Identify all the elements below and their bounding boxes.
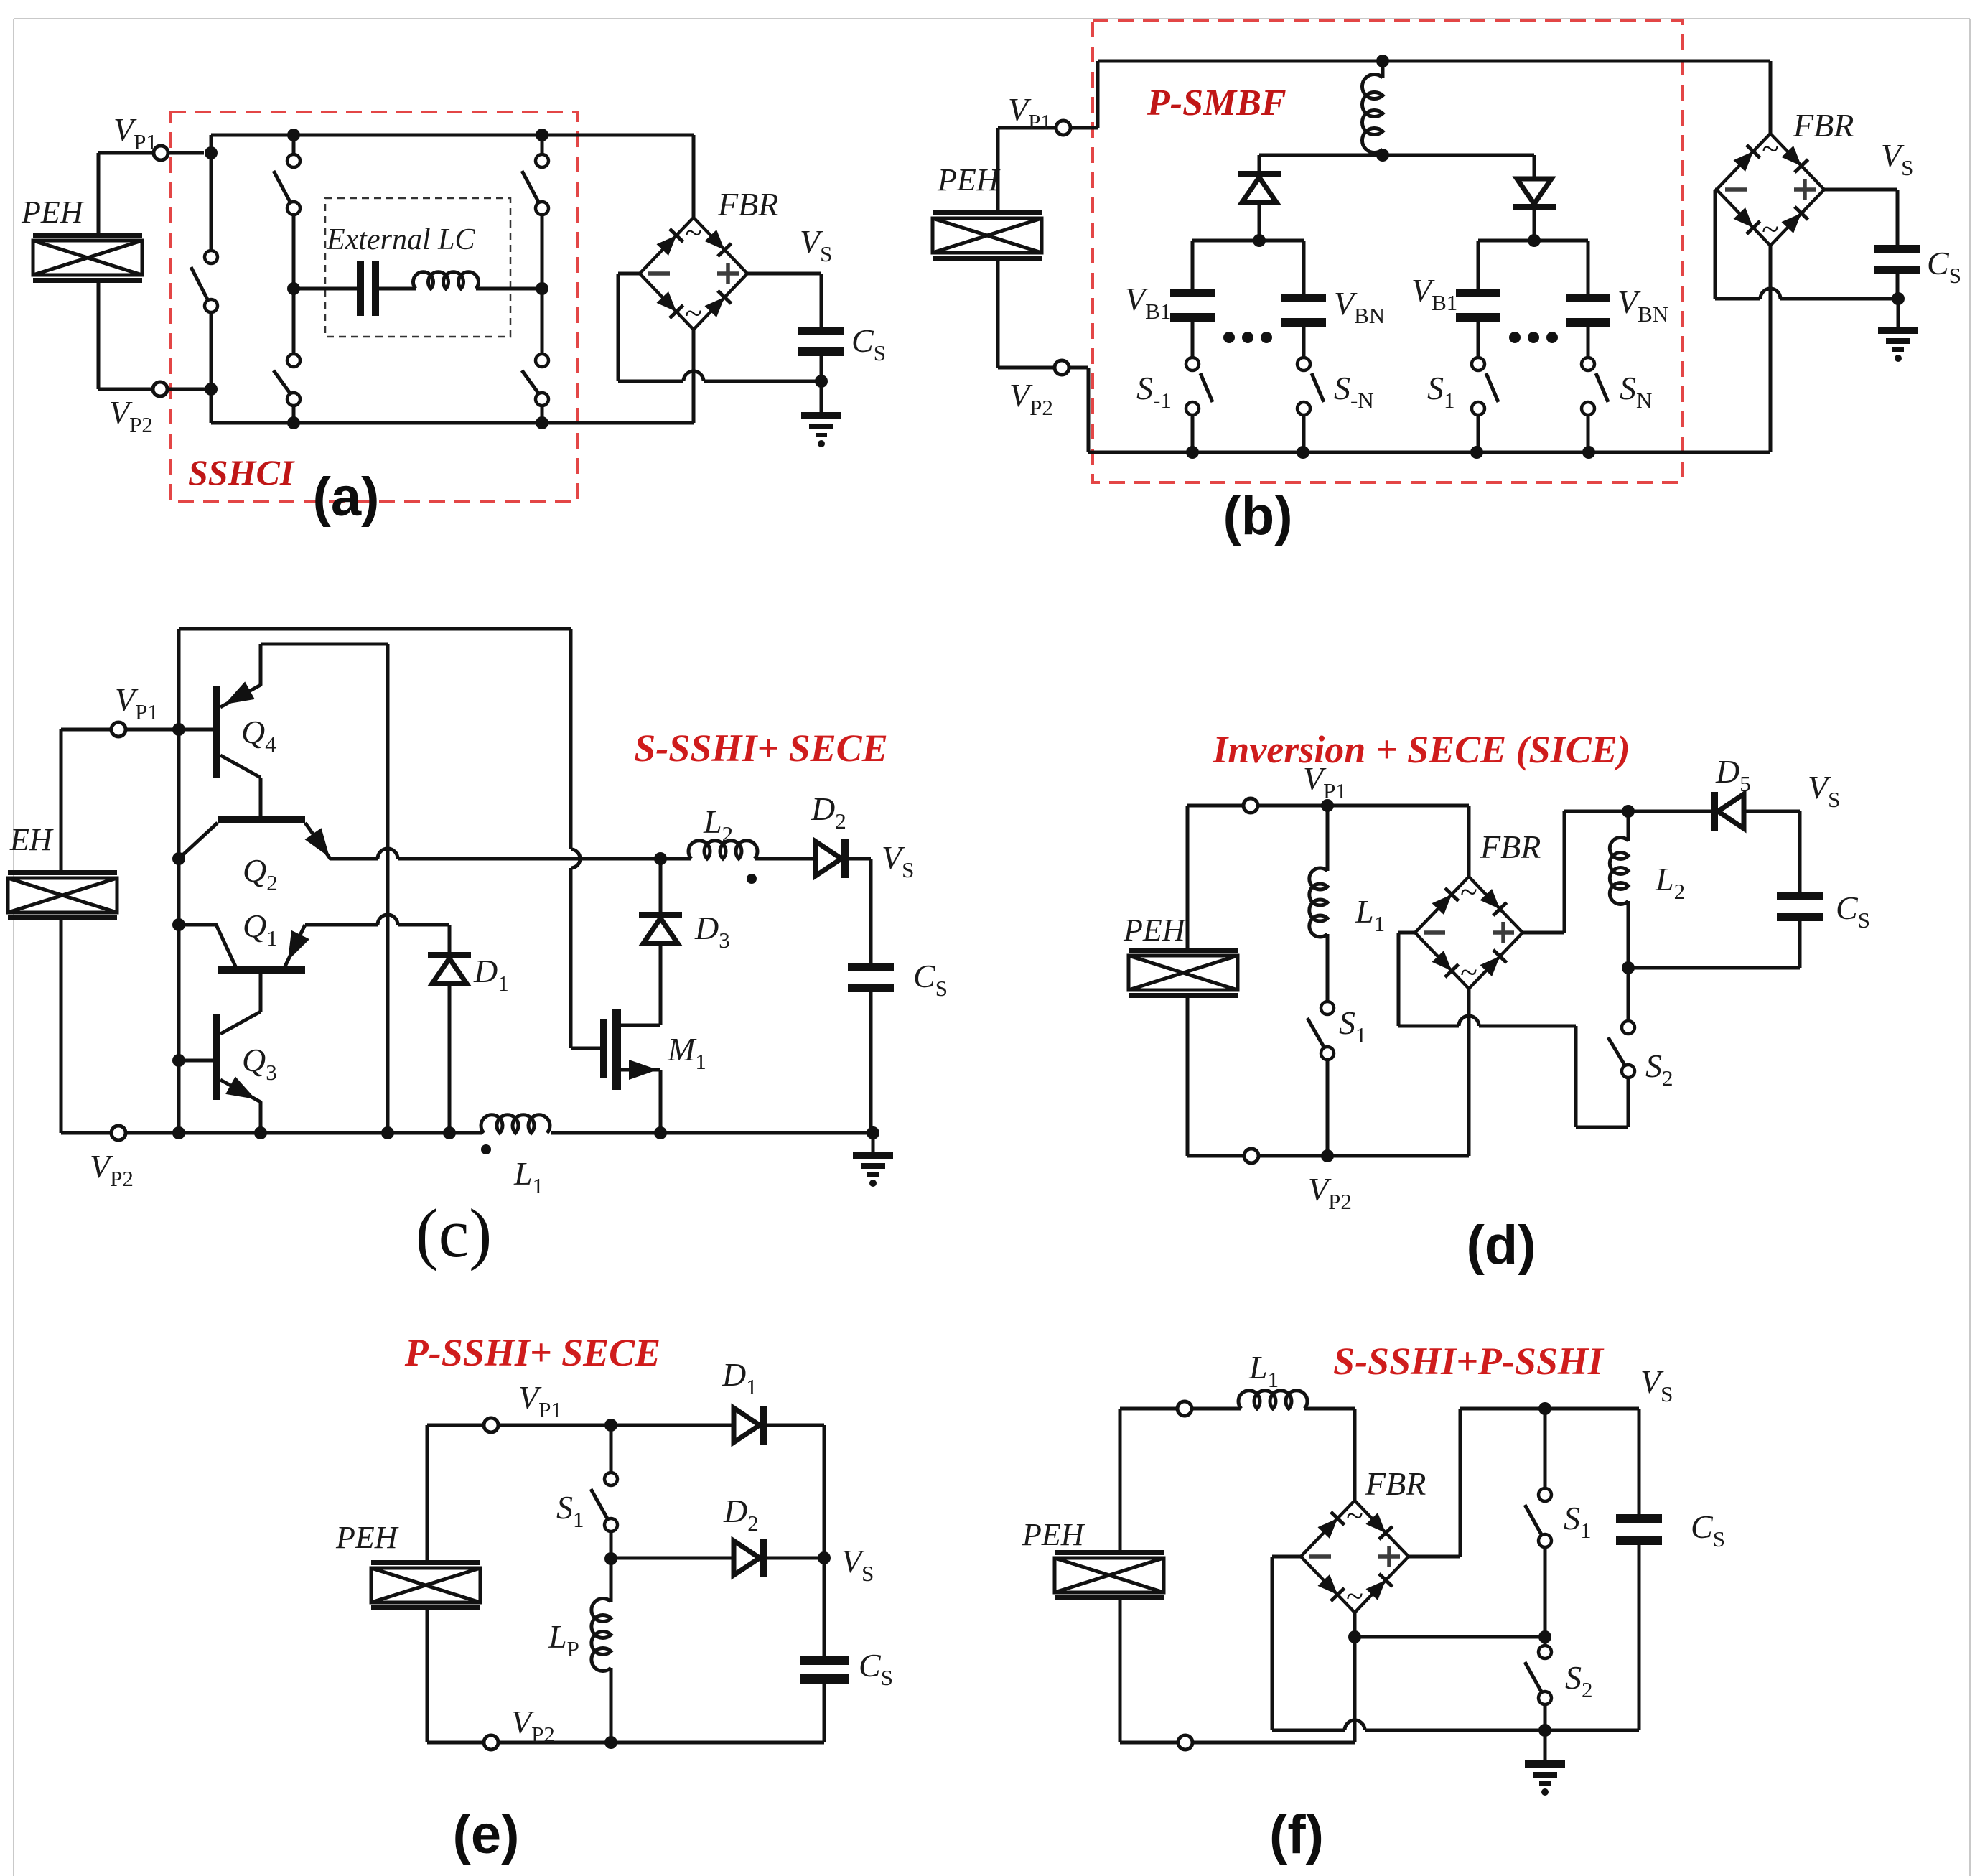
wire FBR right stub (d) bbox=[1523, 811, 1628, 933]
svg-text:PEH: PEH bbox=[937, 162, 1001, 197]
wire S1 bottom (e) bbox=[610, 1531, 613, 1559]
wire Cs top (b) bbox=[1896, 190, 1900, 245]
svg-text:L2: L2 bbox=[1655, 861, 1685, 904]
label S1 (b) bbox=[1427, 370, 1455, 413]
wire bank2 header (b) bbox=[1478, 239, 1588, 243]
svg-text:S2: S2 bbox=[1565, 1659, 1593, 1702]
svg-text:(e): (e) bbox=[453, 1804, 520, 1865]
capacitor VB1 bank1 (b) bbox=[1170, 289, 1215, 322]
PEH transducer (d) bbox=[1129, 948, 1238, 998]
wire bank1 right drop (b) bbox=[1302, 241, 1306, 294]
inductor L1 (d) bbox=[1309, 868, 1327, 937]
switch S-a1 (a) bbox=[191, 251, 218, 312]
label S-1 (b) bbox=[1136, 370, 1172, 413]
wire D5 to corner (d) bbox=[1744, 811, 1800, 892]
svg-text:Q4: Q4 bbox=[241, 714, 276, 757]
svg-text:VP2: VP2 bbox=[90, 1148, 134, 1191]
svg-text:~: ~ bbox=[685, 215, 702, 251]
wire bottom rail (d) bbox=[1187, 1154, 1469, 1158]
wire bottom rail (c) bbox=[61, 1131, 873, 1135]
node VP2 (d) bbox=[1321, 1149, 1334, 1162]
wire S1 bottom (f) bbox=[1544, 1547, 1547, 1637]
wire M1 source drop (c) bbox=[659, 1070, 663, 1133]
PEH label (d) bbox=[1123, 913, 1187, 948]
svg-text:PEH: PEH bbox=[1022, 1517, 1085, 1552]
label S1 (e) bbox=[556, 1489, 584, 1532]
svg-text:S-SSHI+P-SSHI: S-SSHI+P-SSHI bbox=[1333, 1340, 1605, 1383]
dots bank1 (b) bbox=[1223, 332, 1272, 343]
red title (f) bbox=[1333, 1340, 1605, 1383]
diode D5 (d) bbox=[1711, 792, 1744, 831]
wire S2 bottom (f) bbox=[1544, 1704, 1547, 1730]
svg-text:(d): (d) bbox=[1466, 1215, 1536, 1276]
label L1 (f) bbox=[1248, 1349, 1279, 1392]
svg-text:D5: D5 bbox=[1715, 753, 1751, 796]
svg-text:Q2: Q2 bbox=[243, 852, 278, 895]
wire PEH top lead (a) bbox=[97, 153, 101, 233]
svg-text:D1: D1 bbox=[722, 1356, 757, 1399]
red title (e) bbox=[404, 1331, 660, 1374]
terminal VP2 (b) bbox=[1055, 360, 1069, 375]
wire PEH bottom lead (e) bbox=[426, 1610, 429, 1742]
PEH label (c) bbox=[9, 822, 54, 857]
wire branch1 upper (a) bbox=[210, 153, 213, 251]
node branch3 top (a) bbox=[536, 129, 548, 141]
svg-text:S1: S1 bbox=[556, 1489, 584, 1532]
PEH transducer (f) bbox=[1055, 1550, 1164, 1600]
transistor Q4 (c) bbox=[213, 644, 261, 778]
label D3 (c) bbox=[694, 910, 730, 953]
panel label (a) bbox=[313, 467, 380, 528]
wire D3 bottom stem (c) bbox=[659, 943, 663, 1025]
wire Cs bottom (a) bbox=[820, 356, 823, 381]
wire FBR bottom stem (a) bbox=[692, 330, 696, 423]
wire neg run (f) bbox=[1272, 1720, 1639, 1730]
wire VP1 riser (b) bbox=[1096, 61, 1100, 128]
wire S2 top stub (d) bbox=[1627, 968, 1630, 1021]
label M1 (c) bbox=[667, 1031, 706, 1074]
wire S2 jog (d) bbox=[1576, 1026, 1628, 1127]
node VP2 (e) bbox=[604, 1736, 617, 1749]
wire L1 top stub (d) bbox=[1326, 806, 1330, 871]
wire bank1 right bot (b) bbox=[1302, 415, 1306, 452]
inductor L2 (d) bbox=[1610, 838, 1628, 905]
label VP2 (e) bbox=[511, 1704, 555, 1747]
svg-text:CS: CS bbox=[859, 1647, 893, 1690]
wire D1 top stem (c) bbox=[448, 925, 452, 952]
svg-text:~: ~ bbox=[1460, 874, 1477, 910]
wire L1 to corner (f) bbox=[1304, 1409, 1355, 1501]
wire gnd stem (f) bbox=[1544, 1730, 1547, 1760]
svg-text:FBR: FBR bbox=[717, 186, 778, 223]
svg-text:VS: VS bbox=[1881, 137, 1913, 180]
label S2 (f) bbox=[1565, 1659, 1593, 1702]
node branch2 bottom (a) bbox=[287, 416, 300, 429]
transistor Q1 (c) bbox=[179, 925, 309, 974]
wire Cs bottom (c) bbox=[869, 992, 873, 1133]
diode D1 (e) bbox=[734, 1406, 767, 1445]
svg-text:CS: CS bbox=[1836, 890, 1870, 933]
terminal VP1 (a) bbox=[154, 146, 168, 160]
wire FBR left stub (f) bbox=[1272, 1557, 1301, 1730]
svg-text:~: ~ bbox=[1346, 1498, 1363, 1534]
node bank2 top (b) bbox=[1528, 234, 1541, 247]
wire left drop (a) bbox=[210, 389, 213, 423]
wire top rail (a) bbox=[211, 134, 694, 137]
switch S-a3 bottom (a) bbox=[522, 354, 548, 406]
wire S2 top stub (f) bbox=[1544, 1637, 1547, 1646]
wire branch2 seg4 (a) bbox=[292, 406, 296, 423]
wire S1 bottom (d) bbox=[1326, 1060, 1330, 1156]
wire gnd stem (a) bbox=[820, 381, 823, 412]
label VP1 (d) bbox=[1303, 760, 1347, 803]
wire FBR left stub (b) bbox=[1715, 190, 1717, 299]
wire D-right top stub (b) bbox=[1533, 155, 1536, 179]
svg-text:FBR: FBR bbox=[1480, 829, 1541, 865]
wire LC mid (a) bbox=[379, 287, 416, 291]
node L2 node (c) bbox=[654, 852, 667, 865]
svg-text:P-SSHI+ SECE: P-SSHI+ SECE bbox=[404, 1331, 660, 1374]
svg-text:VP1: VP1 bbox=[115, 681, 159, 724]
capacitor VBN bank2 (b) bbox=[1566, 294, 1610, 327]
wire Lb top stub (b) bbox=[1381, 61, 1385, 78]
label Q4 (c) bbox=[241, 714, 276, 757]
wire Lb bottom stub (b) bbox=[1381, 149, 1385, 155]
switch S1 (e) bbox=[591, 1473, 617, 1531]
wire PEH bottom lead (d) bbox=[1186, 998, 1190, 1156]
PEH label (e) bbox=[335, 1520, 399, 1555]
wire mid rail (b) bbox=[1259, 154, 1534, 157]
node branch2 top (a) bbox=[287, 129, 300, 141]
terminal VP1 (e) bbox=[484, 1418, 498, 1432]
label External LC bbox=[326, 223, 475, 256]
capacitor Cs (e) bbox=[800, 1656, 849, 1684]
wire S1 top stub (f) bbox=[1544, 1409, 1547, 1488]
node Cs bottom (c) bbox=[867, 1126, 879, 1139]
wire D2 run (e) bbox=[611, 1557, 734, 1560]
ground (a) bbox=[801, 412, 841, 447]
ground (b) bbox=[1878, 327, 1918, 362]
wire Q3 base (c) bbox=[179, 1059, 213, 1063]
svg-text:VS: VS bbox=[1808, 769, 1840, 812]
svg-text:EH: EH bbox=[9, 822, 54, 857]
svg-text:FBR: FBR bbox=[1793, 107, 1854, 144]
label SN (b) bbox=[1620, 370, 1652, 413]
svg-text:~: ~ bbox=[1346, 1579, 1363, 1614]
wire top rail right (f) bbox=[1460, 1407, 1639, 1411]
svg-text:Q1: Q1 bbox=[243, 907, 278, 951]
switch S2 (d) bbox=[1608, 1021, 1635, 1078]
svg-text:CS: CS bbox=[1691, 1508, 1725, 1551]
label Cs (e) bbox=[859, 1647, 893, 1690]
wire FBR left drop (a) bbox=[617, 274, 620, 381]
node Q1 base node (c) bbox=[172, 918, 185, 931]
node S1 bottom (b) bbox=[1470, 446, 1483, 459]
svg-text:D1: D1 bbox=[473, 953, 509, 996]
wire LC left (a) bbox=[294, 287, 357, 291]
terminal left top (f) bbox=[1177, 1401, 1192, 1416]
ground (f) bbox=[1525, 1760, 1565, 1796]
svg-text:VP2: VP2 bbox=[109, 394, 153, 437]
wire branch3 seg1 (a) bbox=[541, 135, 544, 154]
svg-text:LP: LP bbox=[548, 1618, 579, 1661]
svg-text:Inversion + SECE (SICE): Inversion + SECE (SICE) bbox=[1212, 728, 1630, 771]
label Cs (d) bbox=[1836, 890, 1870, 933]
diode D1 (c) bbox=[428, 952, 471, 984]
node LC left (a) bbox=[287, 282, 300, 295]
wire FBR left stub (d) bbox=[1398, 933, 1415, 1026]
wire PEH bottom lead (a) bbox=[97, 283, 101, 389]
wire FBR top feed (b) bbox=[1769, 61, 1773, 134]
label VBN bank1 (b) bbox=[1334, 285, 1385, 328]
wire bottom rail (a) bbox=[211, 421, 694, 425]
svg-text:~: ~ bbox=[1762, 131, 1779, 167]
wire top rail (b) bbox=[1098, 60, 1770, 63]
capacitor Cs (f) bbox=[1616, 1514, 1662, 1545]
node VP1 junction (a) bbox=[205, 146, 218, 159]
red title (d) bbox=[1212, 728, 1630, 771]
PEH transducer (b) bbox=[933, 210, 1042, 261]
wire D3 top stem (c) bbox=[659, 859, 663, 912]
label S1 (d) bbox=[1339, 1004, 1367, 1047]
switch S-a2 bottom (a) bbox=[274, 354, 300, 406]
label L2 (c) bbox=[703, 803, 733, 846]
panel label (e) bbox=[453, 1804, 520, 1865]
svg-text:(a): (a) bbox=[313, 467, 380, 528]
wire top rail (e) bbox=[427, 1424, 734, 1427]
wire Q1 emitter run (c) bbox=[305, 915, 449, 925]
PEH label (b) bbox=[937, 162, 1001, 197]
label VP1 (e) bbox=[518, 1379, 562, 1422]
wire D1 bottom stem (c) bbox=[448, 984, 452, 1133]
inductor L1 (c) bbox=[481, 1115, 551, 1139]
label VS (d) bbox=[1808, 769, 1840, 812]
switch S1 (f) bbox=[1525, 1488, 1551, 1547]
wire Cs top (e) bbox=[823, 1558, 826, 1656]
wire Cs bottom (b) bbox=[1896, 274, 1900, 299]
node rail-bottom (c) bbox=[172, 1126, 185, 1139]
node Cs-gnd (a) bbox=[815, 375, 828, 388]
diode D-left (b) bbox=[1238, 171, 1281, 202]
inductor LP (e) bbox=[592, 1598, 611, 1671]
label VP2 (c) bbox=[90, 1148, 134, 1191]
wire long vertical (c) bbox=[386, 644, 390, 1133]
capacitor Cs (d) bbox=[1777, 892, 1823, 921]
wire bank2 right bot (b) bbox=[1587, 415, 1590, 452]
wire bank1 left mid (b) bbox=[1191, 322, 1195, 358]
wire FBR top feed (a) bbox=[692, 135, 696, 218]
transistor Q3 (c) bbox=[213, 1012, 261, 1133]
svg-text:PEH: PEH bbox=[21, 195, 85, 230]
SSHCI dashed box (a) bbox=[170, 112, 578, 501]
wire FBR bottom stem (f) bbox=[1353, 1612, 1357, 1742]
node S-1 bottom (b) bbox=[1186, 446, 1199, 459]
wire L2 (d) bbox=[1627, 811, 1630, 841]
node L2 bottom (d) bbox=[1622, 961, 1635, 974]
wire bank2 left mid (b) bbox=[1477, 322, 1480, 358]
node gnd (f) bbox=[1538, 1724, 1551, 1737]
svg-text:CS: CS bbox=[913, 958, 948, 1001]
svg-text:VP2: VP2 bbox=[1308, 1171, 1352, 1214]
wire branch2 seg2 (a) bbox=[292, 215, 296, 289]
label D1 (e) bbox=[722, 1356, 757, 1399]
label VS (e) bbox=[841, 1543, 874, 1586]
node SN bottom (b) bbox=[1582, 446, 1595, 459]
svg-text:L1: L1 bbox=[1248, 1349, 1279, 1392]
panel label (f) bbox=[1269, 1804, 1324, 1865]
node D1 bottom (c) bbox=[443, 1126, 456, 1139]
wire branch3 seg2 (a) bbox=[541, 215, 544, 289]
node S-N bottom (b) bbox=[1297, 446, 1309, 459]
FBR bridge (b) bbox=[1717, 131, 1824, 247]
wire PEH bottom lead (b) bbox=[996, 261, 1000, 368]
svg-text:PEH: PEH bbox=[1123, 913, 1187, 948]
FBR bridge (d) bbox=[1415, 874, 1523, 990]
svg-text:(f): (f) bbox=[1269, 1804, 1324, 1865]
node branch3 bottom (a) bbox=[536, 416, 548, 429]
svg-text:VBN: VBN bbox=[1617, 284, 1668, 327]
svg-text:CS: CS bbox=[851, 322, 886, 365]
External LC dashed box (a) bbox=[325, 198, 510, 337]
terminal VP2 (a) bbox=[153, 382, 167, 396]
label L1 (d) bbox=[1355, 893, 1385, 936]
label FBR (a) bbox=[717, 186, 778, 223]
node VS (f) bbox=[1538, 1402, 1551, 1415]
svg-text:M1: M1 bbox=[667, 1031, 706, 1074]
svg-text:L1: L1 bbox=[1355, 893, 1385, 936]
wire bank2 right drop (b) bbox=[1587, 241, 1590, 294]
wire Q1-Q3 link (c) bbox=[259, 974, 263, 1012]
inductor L2 (c) bbox=[688, 841, 757, 859]
diode D-right (b) bbox=[1513, 179, 1556, 210]
node bank1 top (b) bbox=[1253, 234, 1266, 247]
svg-text:S1: S1 bbox=[1564, 1500, 1592, 1543]
wire D1 to corner (e) bbox=[767, 1425, 824, 1558]
wire gnd stem (c) bbox=[872, 1133, 875, 1152]
svg-text:FBR: FBR bbox=[1365, 1465, 1426, 1502]
svg-text:VS: VS bbox=[841, 1543, 874, 1586]
label D2 (e) bbox=[723, 1493, 759, 1536]
wire VP2 drop (b) bbox=[1087, 368, 1091, 452]
wire right feed (c) bbox=[571, 629, 580, 1048]
wire Cs top (a) bbox=[820, 274, 823, 327]
label Cs (a) bbox=[851, 322, 886, 365]
node Lb bottom (b) bbox=[1376, 149, 1389, 162]
panel label (d) bbox=[1466, 1215, 1536, 1276]
svg-text:(b): (b) bbox=[1223, 485, 1292, 546]
wire LP bottom (e) bbox=[610, 1668, 613, 1742]
wire cross link (f) bbox=[1355, 1635, 1545, 1639]
svg-text:SSHCI: SSHCI bbox=[188, 452, 295, 493]
svg-text:VS: VS bbox=[800, 223, 832, 266]
node VS (e) bbox=[818, 1551, 831, 1564]
switch S-a3 top (a) bbox=[522, 154, 548, 215]
label P-SMBF bbox=[1147, 83, 1286, 123]
label VBN bank2 (b) bbox=[1617, 284, 1668, 327]
label S1 (f) bbox=[1564, 1500, 1592, 1543]
switch S1 (d) bbox=[1307, 1002, 1334, 1060]
red title (c) bbox=[634, 727, 887, 770]
wire M1 gate lead (c) bbox=[571, 1047, 600, 1050]
svg-text:(c): (c) bbox=[416, 1195, 492, 1271]
label SSHCI bbox=[188, 452, 295, 493]
label Q1 (c) bbox=[243, 907, 278, 951]
svg-text:D2: D2 bbox=[723, 1493, 759, 1536]
capacitor VBN bank1 (b) bbox=[1281, 294, 1326, 327]
switch S-a2 top (a) bbox=[274, 154, 300, 215]
wire bank2 right mid (b) bbox=[1587, 327, 1590, 358]
capacitor Cs (a) bbox=[798, 327, 844, 356]
label D5 (d) bbox=[1715, 753, 1751, 796]
label VS (f) bbox=[1640, 1363, 1673, 1406]
svg-text:VB1: VB1 bbox=[1411, 272, 1457, 315]
node LC right (a) bbox=[536, 282, 548, 295]
wire bank2 left bot (b) bbox=[1477, 415, 1480, 452]
svg-text:S-N: S-N bbox=[1334, 370, 1374, 413]
transistor Q2 (c) bbox=[179, 816, 341, 863]
diode D3 (c) bbox=[639, 912, 682, 943]
capacitor LC (a) bbox=[357, 261, 379, 316]
node VP2 junction (a) bbox=[205, 383, 218, 396]
wire FBR top feed (d) bbox=[1467, 806, 1471, 877]
wire Cs drop (f) bbox=[1638, 1409, 1641, 1514]
switch S-N (b) bbox=[1297, 358, 1324, 415]
wire bank1 left bot (b) bbox=[1191, 415, 1195, 452]
wire VP1 riser (a) bbox=[210, 135, 213, 153]
label LP (e) bbox=[548, 1618, 579, 1661]
svg-text:VBN: VBN bbox=[1334, 285, 1385, 328]
wire L2 bottom (d) bbox=[1627, 901, 1630, 968]
label Q3 (c) bbox=[242, 1042, 277, 1085]
svg-text:VS: VS bbox=[1640, 1363, 1673, 1406]
label FBR (f) bbox=[1365, 1465, 1426, 1502]
inductor L1 (f) bbox=[1238, 1391, 1307, 1409]
wire VP2 (b) bbox=[998, 366, 1088, 370]
svg-text:~: ~ bbox=[1460, 955, 1477, 990]
label Cs (f) bbox=[1691, 1508, 1725, 1551]
wire PEH bottom lead (c) bbox=[60, 920, 63, 1133]
wire FBR neg run (d) bbox=[1398, 1016, 1576, 1026]
ground (c) bbox=[853, 1152, 893, 1187]
node long vertical bottom (c) bbox=[381, 1126, 394, 1139]
label VP1 (c) bbox=[115, 681, 159, 724]
svg-text:VB1: VB1 bbox=[1125, 281, 1171, 324]
terminal VP1-t (d) bbox=[1243, 798, 1258, 813]
label L2 (d) bbox=[1655, 861, 1685, 904]
node Lb top (b) bbox=[1376, 55, 1389, 67]
node S1 bottom (f) bbox=[1538, 1630, 1551, 1643]
switch S2 (f) bbox=[1525, 1646, 1551, 1704]
capacitor Cs (b) bbox=[1874, 245, 1920, 274]
FBR bridge (f) bbox=[1301, 1498, 1409, 1614]
svg-text:S1: S1 bbox=[1427, 370, 1455, 413]
inductor LC (a) bbox=[414, 272, 479, 289]
wire FBR bottom stem (b) bbox=[1769, 246, 1773, 452]
phase dot L2 (c) bbox=[747, 874, 757, 884]
PEH label (a) bbox=[21, 195, 85, 230]
wire branch3 seg3 (a) bbox=[541, 289, 544, 354]
node Q2 base (c) bbox=[172, 852, 185, 865]
P-SMBF dashed box (b) bbox=[1093, 21, 1682, 482]
svg-text:S2: S2 bbox=[1645, 1047, 1673, 1091]
label Q2 (c) bbox=[243, 852, 278, 895]
label D2 (c) bbox=[811, 790, 846, 834]
terminal VP1 (c) bbox=[111, 722, 126, 737]
wire FBR neg run (a) bbox=[618, 371, 821, 381]
mosfet M1 (c) bbox=[600, 1009, 660, 1090]
wire bottom rail (e) bbox=[427, 1741, 824, 1745]
svg-text:External LC: External LC bbox=[326, 223, 475, 256]
